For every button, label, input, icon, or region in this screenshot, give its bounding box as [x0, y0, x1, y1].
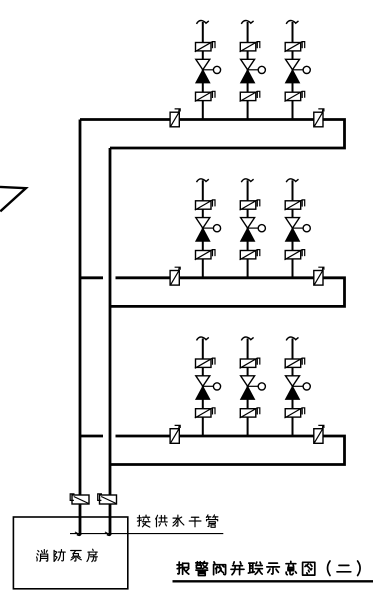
- middle loop main (gap at riser 2): [80, 276, 103, 279]
- sprinkler branch top-2: riser drop at x=247.6: [247, 22, 249, 120]
- pipe break squiggle bottom-1: [197, 337, 209, 340]
- sprinkler branch top-3: riser drop at x=292.5: [292, 22, 294, 120]
- alarm check valve bottom-3: [286, 376, 300, 387]
- signal valve (upper) middle-1: [196, 201, 212, 209]
- alarm check valve top-1: [196, 59, 210, 70]
- alarm check valve top-2: [241, 59, 255, 70]
- pressure gauge / trim middle-3: [293, 227, 304, 229]
- signal valve (lower) bottom-3: [285, 409, 301, 417]
- pipe break squiggle middle-2: [241, 179, 253, 182]
- label: jie gong shui gan guan (connect to supply main): [137, 515, 150, 527]
- pressure gauge / trim bottom-2: [248, 385, 259, 387]
- signal valve (lower) top-2: [240, 92, 256, 100]
- signal valve (lower) bottom-2: [240, 409, 256, 417]
- riser pipe 2 (return/second supply): [109, 148, 112, 535]
- pressure gauge / trim middle-1: [203, 227, 214, 229]
- pipe break squiggle middle-1: [197, 179, 209, 182]
- riser pipe 1 (supply): [79, 120, 82, 536]
- signal valve (lower) top-3: [285, 92, 301, 100]
- alarm check valve bottom-2: [241, 376, 255, 387]
- signal valve (upper) top-3: [285, 43, 301, 51]
- pressure gauge / trim top-1: [203, 69, 214, 71]
- signal valve riser-1 on riser: [72, 495, 89, 504]
- sectioning signal valve middle-left on main: [170, 271, 179, 286]
- left break arrow: [0, 187, 26, 212]
- sectioning signal valve middle-right on main: [314, 271, 323, 286]
- riser 2 end curl: [107, 533, 111, 535]
- pipe break squiggle top-3: [286, 20, 298, 23]
- signal valve (lower) bottom-1: [196, 409, 212, 417]
- water supply header line / label leader: [70, 533, 223, 535]
- pressure gauge / trim middle-2: [248, 227, 259, 229]
- signal valve (lower) middle-2: [240, 251, 256, 259]
- sprinkler branch top-1: riser drop at x=202.8: [202, 22, 204, 120]
- sectioning signal valve bottom-right on main: [314, 429, 323, 444]
- riser 1 end curl: [77, 533, 81, 535]
- sprinkler branch bottom-3: riser drop at x=292.5: [292, 339, 294, 437]
- sprinkler branch middle-1: riser drop at x=202.8: [202, 180, 204, 277]
- sprinkler branch bottom-1: riser drop at x=202.8: [202, 339, 204, 437]
- signal valve riser-2 on riser: [100, 495, 117, 504]
- alarm check valve bottom-1: [196, 376, 210, 387]
- signal valve (upper) top-2: [240, 43, 256, 51]
- pipe break squiggle bottom-3: [286, 337, 298, 340]
- pipe break squiggle bottom-2: [241, 337, 253, 340]
- alarm check valve middle-3: [286, 218, 300, 229]
- label: xiao fang beng fang (fire pump room): [37, 550, 48, 562]
- signal valve (upper) bottom-1: [196, 359, 212, 367]
- signal valve (upper) middle-2: [240, 201, 256, 209]
- alarm check valve middle-2: [241, 218, 255, 229]
- pressure gauge / trim bottom-3: [293, 385, 304, 387]
- pressure gauge / trim bottom-1: [203, 385, 214, 387]
- sectioning signal valve bottom-left on main: [170, 429, 179, 444]
- signal valve (lower) middle-3: [285, 251, 301, 259]
- pressure gauge / trim top-2: [248, 69, 259, 71]
- sectioning signal valve top-left on main: [170, 112, 179, 127]
- alarm check valve top-3: [286, 59, 300, 70]
- sprinkler branch middle-3: riser drop at x=292.5: [292, 180, 294, 277]
- signal valve (upper) middle-3: [285, 201, 301, 209]
- title: alarm valves in parallel schematic (2): [177, 562, 189, 574]
- fire pump room box: [13, 517, 127, 589]
- signal valve (lower) middle-1: [196, 251, 212, 259]
- bottom loop main (gap at riser 2): [80, 435, 103, 438]
- sectioning signal valve top-right on main: [314, 112, 323, 127]
- pressure gauge / trim top-3: [293, 69, 304, 71]
- sprinkler branch middle-2: riser drop at x=247.6: [247, 180, 249, 277]
- pipe break squiggle top-2: [241, 20, 253, 23]
- signal valve (lower) top-1: [196, 92, 212, 100]
- top loop main: [80, 120, 345, 149]
- signal valve (upper) bottom-2: [240, 359, 256, 367]
- title underline: [173, 580, 374, 582]
- alarm check valve middle-1: [196, 218, 210, 229]
- sprinkler branch bottom-2: riser drop at x=247.6: [247, 339, 249, 437]
- signal valve (upper) top-1: [196, 43, 212, 51]
- pipe break squiggle top-1: [197, 20, 209, 23]
- signal valve (upper) bottom-3: [285, 359, 301, 367]
- pipe break squiggle middle-3: [286, 179, 298, 182]
